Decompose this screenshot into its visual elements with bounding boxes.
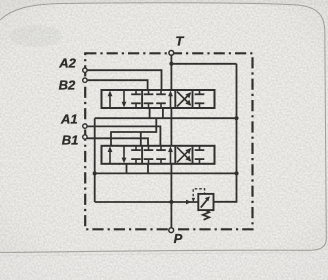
valve V2 spool (102, 146, 215, 164)
wire T column (170, 53, 172, 90)
wire B2 (87, 80, 148, 90)
port P (169, 228, 174, 233)
enclosure (phantom) border (85, 53, 252, 229)
arrow on relief feed (186, 200, 192, 205)
wire T to tank line (171, 63, 236, 65)
port T (169, 51, 174, 56)
smudge top-left (10, 25, 62, 47)
wire return L1 (95, 172, 237, 174)
wire carryover zigzag (111, 118, 156, 146)
wire stub valve1 to L0 (162, 108, 164, 118)
wire relief feed L2 (95, 201, 198, 203)
lighter strip below page edge (0, 251, 328, 280)
relief valve arrow (201, 198, 208, 207)
wire P column between valves (170, 108, 172, 146)
wire A1 (87, 126, 160, 145)
page bottom edge line (0, 250, 310, 252)
relief valve RV body (198, 194, 213, 210)
port A1 (83, 124, 87, 128)
junction tank-L1 (234, 171, 238, 175)
darker margin above page curl (0, 0, 328, 20)
wire gallery L0 (95, 117, 237, 119)
wire stub2 valve2 to L1 (147, 164, 149, 174)
junction P-relief (169, 200, 173, 204)
port B1 (83, 135, 87, 139)
wire tank right column (214, 64, 237, 202)
junction tank-L0 (234, 116, 238, 120)
wire zig drop (140, 132, 142, 146)
pilot arrowhead (192, 198, 196, 202)
wire P column bottom (170, 164, 172, 229)
valve V1 spool (102, 90, 215, 108)
wire A2 (87, 70, 162, 90)
port A2 (83, 68, 87, 72)
junction T (169, 62, 173, 66)
port B2 (83, 78, 87, 82)
relief valve spring (203, 210, 209, 220)
wire stub2 valve1 to L0 (149, 108, 151, 118)
wire B1 (87, 138, 148, 146)
junction left-L1 (93, 171, 97, 175)
wire stub valve2 to L1 (126, 164, 128, 174)
relief valve pilot line (dashed) (193, 189, 204, 201)
wire left column (94, 118, 96, 202)
